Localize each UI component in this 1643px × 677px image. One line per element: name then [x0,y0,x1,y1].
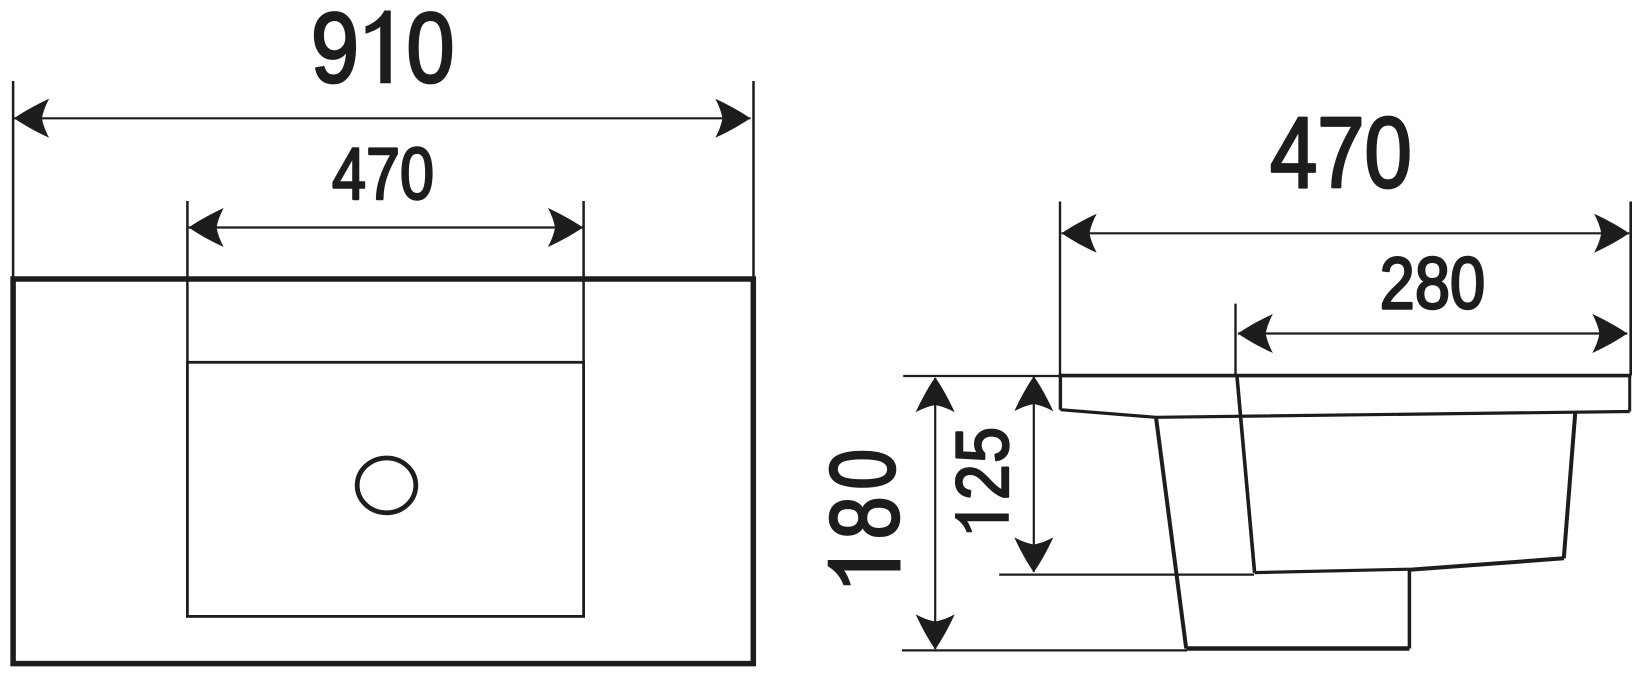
arrow left 910 [14,99,49,138]
svg-text:280: 280 [1380,243,1485,324]
countertop slab top edge (side view) [1059,374,1632,378]
dimension line 470 (side view) [1062,232,1630,234]
bowl inner bottom line [1255,569,1410,572]
dimension line 280 [1238,332,1627,334]
bowl outer right wall [1564,412,1576,558]
arrow down 180 [916,614,955,649]
extension line right of 470 dim (top view) [582,201,585,362]
arrow right 910 [715,99,750,138]
svg-text:8: 8 [810,496,919,539]
svg-text:470: 470 [332,134,434,215]
arrow right 280 [1592,314,1627,353]
slab left edge [1059,374,1062,410]
arrow up 180 [916,377,955,412]
svg-text:9: 9 [311,0,359,103]
pedestal right step edge [1408,569,1412,648]
arrow down 125 [1014,537,1053,572]
svg-text:5: 5 [941,427,1024,463]
extension line right of 470/280 dims (side view) [1629,202,1632,376]
arrow up 125 [1014,376,1053,411]
bottom extension line for 180 dim [902,649,1187,651]
bottom extension line for 125 dim [999,573,1254,575]
outer rectangle (countertop outline, top view) [13,279,753,664]
slab right edge [1628,374,1631,412]
dimension line 470 [189,226,584,228]
extension line left of 470 dim (top view) [186,201,189,362]
svg-text:0: 0 [811,449,914,490]
label 125 (rotated) [955,514,1009,533]
arrow right 470 side [1594,214,1629,253]
dimension line 910 [14,117,751,119]
bowl bottom right diagonal [1409,558,1564,570]
dimension line 125 [1033,377,1035,572]
arrow left 280 [1238,314,1273,353]
arrow left 470 [189,208,224,247]
pedestal bottom [1186,646,1409,651]
extension line right of 910 dim [752,81,755,277]
extension line left of 910 dim [12,81,15,277]
drain hole circle [357,458,416,513]
dimension line 180 [934,378,936,649]
bowl inner slanted wall [1237,377,1255,573]
svg-text:470: 470 [1270,97,1412,209]
label 180 (rotated) [828,560,901,585]
arrow right 470 [548,208,583,247]
arrow left 470 side [1062,214,1097,253]
inner rectangle (basin bowl, top view) [187,362,583,616]
extension line left of 280 dim [1234,304,1236,376]
svg-text:0: 0 [406,0,454,103]
svg-text:2: 2 [941,464,1024,500]
extension line left of 470 dim (side view) [1059,202,1061,376]
top extension line for 180/125 dims [903,375,1060,377]
slab bottom edge with drip point [1060,410,1629,418]
bowl outer left wall [1156,417,1186,648]
